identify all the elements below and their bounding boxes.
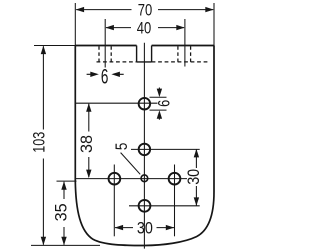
dimension 70 right extension [213, 3, 215, 46]
plate outline top edge [75, 45, 214, 47]
hole E column line [174, 165, 176, 237]
dimension 70 line [76, 9, 213, 11]
hole F bottom circle [139, 200, 151, 212]
top slot notch walls and bottom [137, 46, 152, 62]
hole E right circle [169, 173, 181, 185]
dimension 40 right extension [184, 19, 186, 67]
svg-text:38: 38 [77, 135, 96, 153]
dimension 103 35 bottom extension [31, 244, 100, 246]
arrowhead 30 bottom left [115, 225, 124, 230]
arrowhead 38 top [86, 103, 91, 112]
vertical centerline [143, 43, 145, 249]
svg-text:40: 40 [137, 19, 152, 38]
hole D left circle [109, 173, 121, 185]
svg-text:35: 35 [52, 203, 71, 221]
dimension 103 line [42, 46, 44, 245]
hidden depth line dashed [97, 61, 211, 63]
plate outline left edge and bottom-left curve [75, 46, 144, 246]
dimension 35 top extension [57, 180, 77, 182]
arrowhead 40 left [105, 25, 114, 30]
hole A tangent extension lines [150, 97, 167, 110]
dimension 38 line [88, 104, 90, 177]
hidden slot left dashed verticals [99, 46, 111, 62]
arrowhead 30 right top [194, 149, 199, 158]
svg-text:6: 6 [155, 100, 174, 107]
dimension 6 slot arrows tails [87, 73, 124, 75]
dimension 35 line [63, 182, 65, 245]
hole C small center circle [141, 175, 148, 182]
svg-text:6: 6 [101, 66, 109, 89]
hole B circle [139, 144, 151, 156]
dimension 30 right line [195, 149, 197, 205]
dimension 30 bottom line [115, 227, 174, 229]
arrowhead 103 top [41, 46, 46, 55]
leader line for 5 [121, 153, 141, 175]
dimension 103 top extension [34, 45, 75, 47]
arrowhead 6 hole bottom [157, 110, 162, 119]
arrowhead 6 slot right [111, 72, 120, 77]
holes row line D C E [76, 178, 187, 180]
arrowhead 6 slot left [90, 72, 99, 77]
svg-text:103: 103 [30, 132, 49, 153]
arrowhead 38 bottom [86, 170, 91, 179]
arrowhead 35 bottom [61, 237, 66, 246]
svg-text:30: 30 [137, 218, 153, 237]
dimension 70 left extension [74, 3, 76, 46]
hidden slot right dashed verticals [178, 46, 191, 62]
hole D column line [113, 165, 115, 237]
hole B row line [131, 148, 200, 150]
hole A top circle [139, 98, 151, 110]
arrowhead 70 left [76, 7, 85, 12]
arrowhead 30 right bottom [194, 197, 199, 206]
hole F row line [129, 205, 200, 207]
dimension 6 hole A vertical line tails [158, 88, 160, 120]
svg-text:5: 5 [112, 143, 131, 151]
arrowhead 35 top [61, 181, 66, 190]
arrowhead 6 hole top [157, 89, 162, 98]
dimension 40 left extension [104, 19, 106, 68]
dimension 40 line [106, 27, 184, 29]
arrowhead 30 bottom right [166, 225, 175, 230]
svg-text:30: 30 [184, 169, 203, 185]
plate outline right edge and bottom-right curve [145, 46, 215, 246]
arrowhead 70 right [205, 7, 214, 12]
arrowhead 103 bottom [41, 237, 46, 246]
svg-text:70: 70 [138, 1, 153, 20]
arrowhead 40 right [176, 25, 185, 30]
hole A row line [76, 102, 158, 104]
